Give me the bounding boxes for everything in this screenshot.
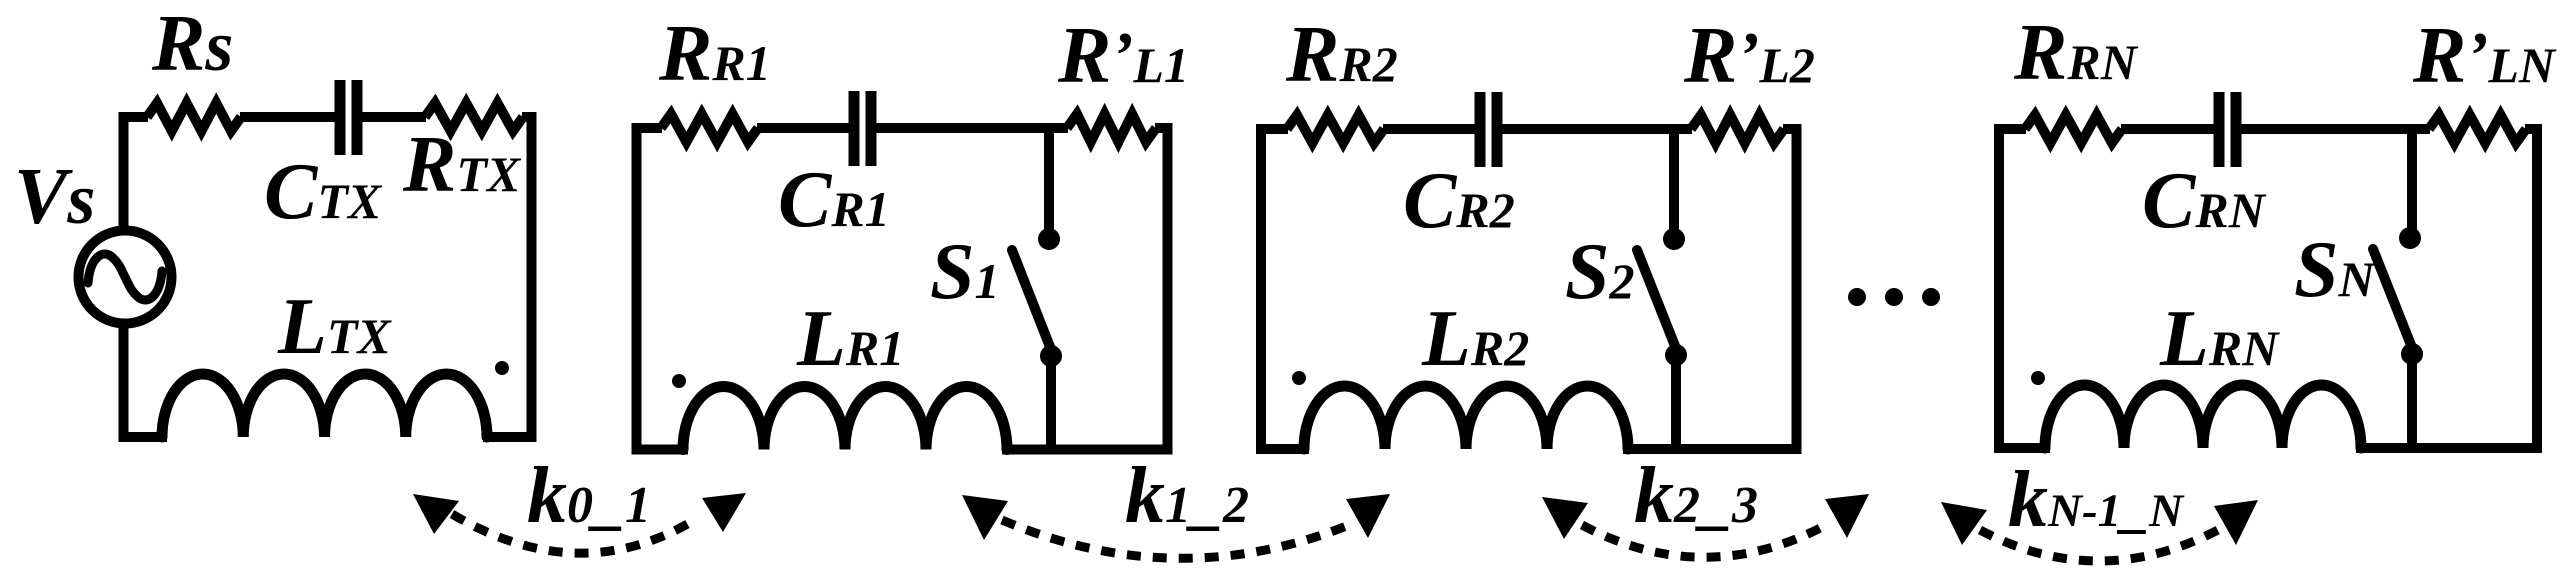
switch S2 node top [1663, 228, 1685, 250]
wire RXN top 3 [2241, 124, 2430, 134]
inductor LR2 [1304, 386, 1628, 449]
ellipsis dots [1848, 288, 1940, 306]
wire RX2 bottom right [1623, 444, 1802, 454]
wire RX2 top 2 [1383, 124, 1475, 134]
resistor RR2 [1287, 115, 1384, 143]
wire TX top 3 [362, 112, 426, 122]
wire TX bottom right [483, 432, 537, 442]
switch S1 wire top [1044, 128, 1054, 239]
wire RX1 right [1163, 123, 1173, 455]
wire RXN bottom left [1994, 443, 2050, 453]
label k0_1 [527, 452, 651, 540]
switch SN arm [2373, 249, 2413, 350]
capacitor CTX [340, 80, 357, 155]
wire RX1 top 4 [1155, 123, 1168, 133]
polarity dot RX1 [672, 374, 686, 388]
wire RX1 bottom right [1002, 445, 1173, 455]
capacitor CR2 [1480, 92, 1497, 167]
capacitor CRN [2219, 92, 2236, 167]
coupling arrow k2_3 [1542, 494, 1869, 557]
coupling arrow k1_2 [962, 494, 1390, 558]
wire RXN right [2532, 124, 2542, 453]
wire RX1 left [632, 123, 642, 455]
label k1_2 [1125, 452, 1249, 540]
wire RX2 right [1792, 124, 1802, 454]
label CR1 [778, 156, 890, 244]
wire TX right [527, 112, 537, 442]
wire RXN bottom right [2356, 443, 2542, 453]
voltage source VS [79, 231, 172, 324]
label LR2 [1421, 295, 1529, 383]
wire RXN left [1994, 124, 2004, 453]
label VS [14, 153, 95, 241]
label CR2 [1403, 157, 1515, 245]
capacitor CR1 [854, 91, 871, 166]
wire RXN top 4 [2525, 124, 2537, 134]
switch S2 wire bottom [1671, 355, 1681, 449]
polarity dot RX2 [1292, 371, 1306, 385]
switch S1 node top [1038, 228, 1060, 250]
inductor LRN [2045, 385, 2361, 448]
label RLN [2412, 12, 2557, 100]
inductor LTX [162, 374, 487, 437]
label RR2 [1285, 11, 1398, 99]
wire RX1 top 3 [876, 123, 1068, 133]
resistor RTX [425, 103, 523, 131]
switch S2 node bottom [1665, 344, 1687, 366]
wire RX1 top 2 [757, 123, 849, 133]
wire TX bottom left [119, 432, 168, 442]
coupling arrow kN-1_N [1941, 500, 2258, 561]
label S2 [1565, 228, 1635, 316]
switch S1 node bottom [1040, 345, 1062, 367]
switch SN wire top [2407, 129, 2417, 238]
resistor RRN [2025, 115, 2122, 143]
label CRN [2142, 157, 2267, 245]
switch SN node top [2399, 227, 2421, 249]
svg-text:Rs: Rs [151, 0, 233, 88]
wire RX1 top 1 [632, 123, 663, 133]
wire RX2 top 4 [1783, 124, 1797, 134]
label k2_3 [1634, 452, 1758, 540]
wire TX left top segment [119, 112, 129, 227]
svg-text:Vs: Vs [14, 153, 95, 241]
resistor RR1 [661, 114, 758, 142]
wire TX top 2 [240, 112, 335, 122]
wire TX top 1 [119, 112, 149, 122]
wire RX2 top 3 [1502, 124, 1692, 134]
label RRN [2013, 9, 2139, 97]
label S1 [930, 228, 1000, 316]
resistor RL2 [1691, 115, 1784, 143]
wire RXN top 2 [2121, 124, 2214, 134]
wire TX left bottom segment [119, 327, 129, 442]
switch S2 wire top [1669, 129, 1679, 239]
label RTX [402, 121, 522, 209]
wire RX2 top 1 [1256, 124, 1288, 134]
switch S1 wire bottom [1046, 356, 1056, 450]
resistor RLN [2429, 115, 2526, 143]
polarity dot RXN [2031, 371, 2045, 385]
switch S1 arm [1012, 250, 1052, 352]
label RS [151, 0, 233, 88]
label RL1 [1057, 12, 1189, 100]
label SN [2294, 226, 2377, 314]
resistor RL1 [1067, 114, 1156, 142]
wire RXN top 1 [1994, 124, 2026, 134]
wire RX2 left [1256, 124, 1266, 454]
label RL2 [1683, 12, 1815, 100]
label CTX [264, 148, 383, 236]
switch S2 arm [1637, 250, 1677, 351]
label LR1 [796, 295, 904, 383]
label kN-1_N [2008, 456, 2185, 544]
label LTX [277, 283, 392, 371]
label LRN [2159, 295, 2280, 383]
wire RX2 bottom left [1256, 444, 1309, 454]
resistor RS [147, 103, 241, 131]
wire RX1 bottom left [632, 445, 689, 455]
label RR1 [658, 10, 771, 98]
coupling arrow k0_1 [413, 493, 746, 553]
wire TX top 4 [522, 112, 532, 122]
inductor LR1 [683, 387, 1007, 450]
switch SN node bottom [2401, 343, 2423, 365]
switch SN wire bottom [2407, 354, 2417, 448]
polarity dot TX [495, 361, 509, 375]
